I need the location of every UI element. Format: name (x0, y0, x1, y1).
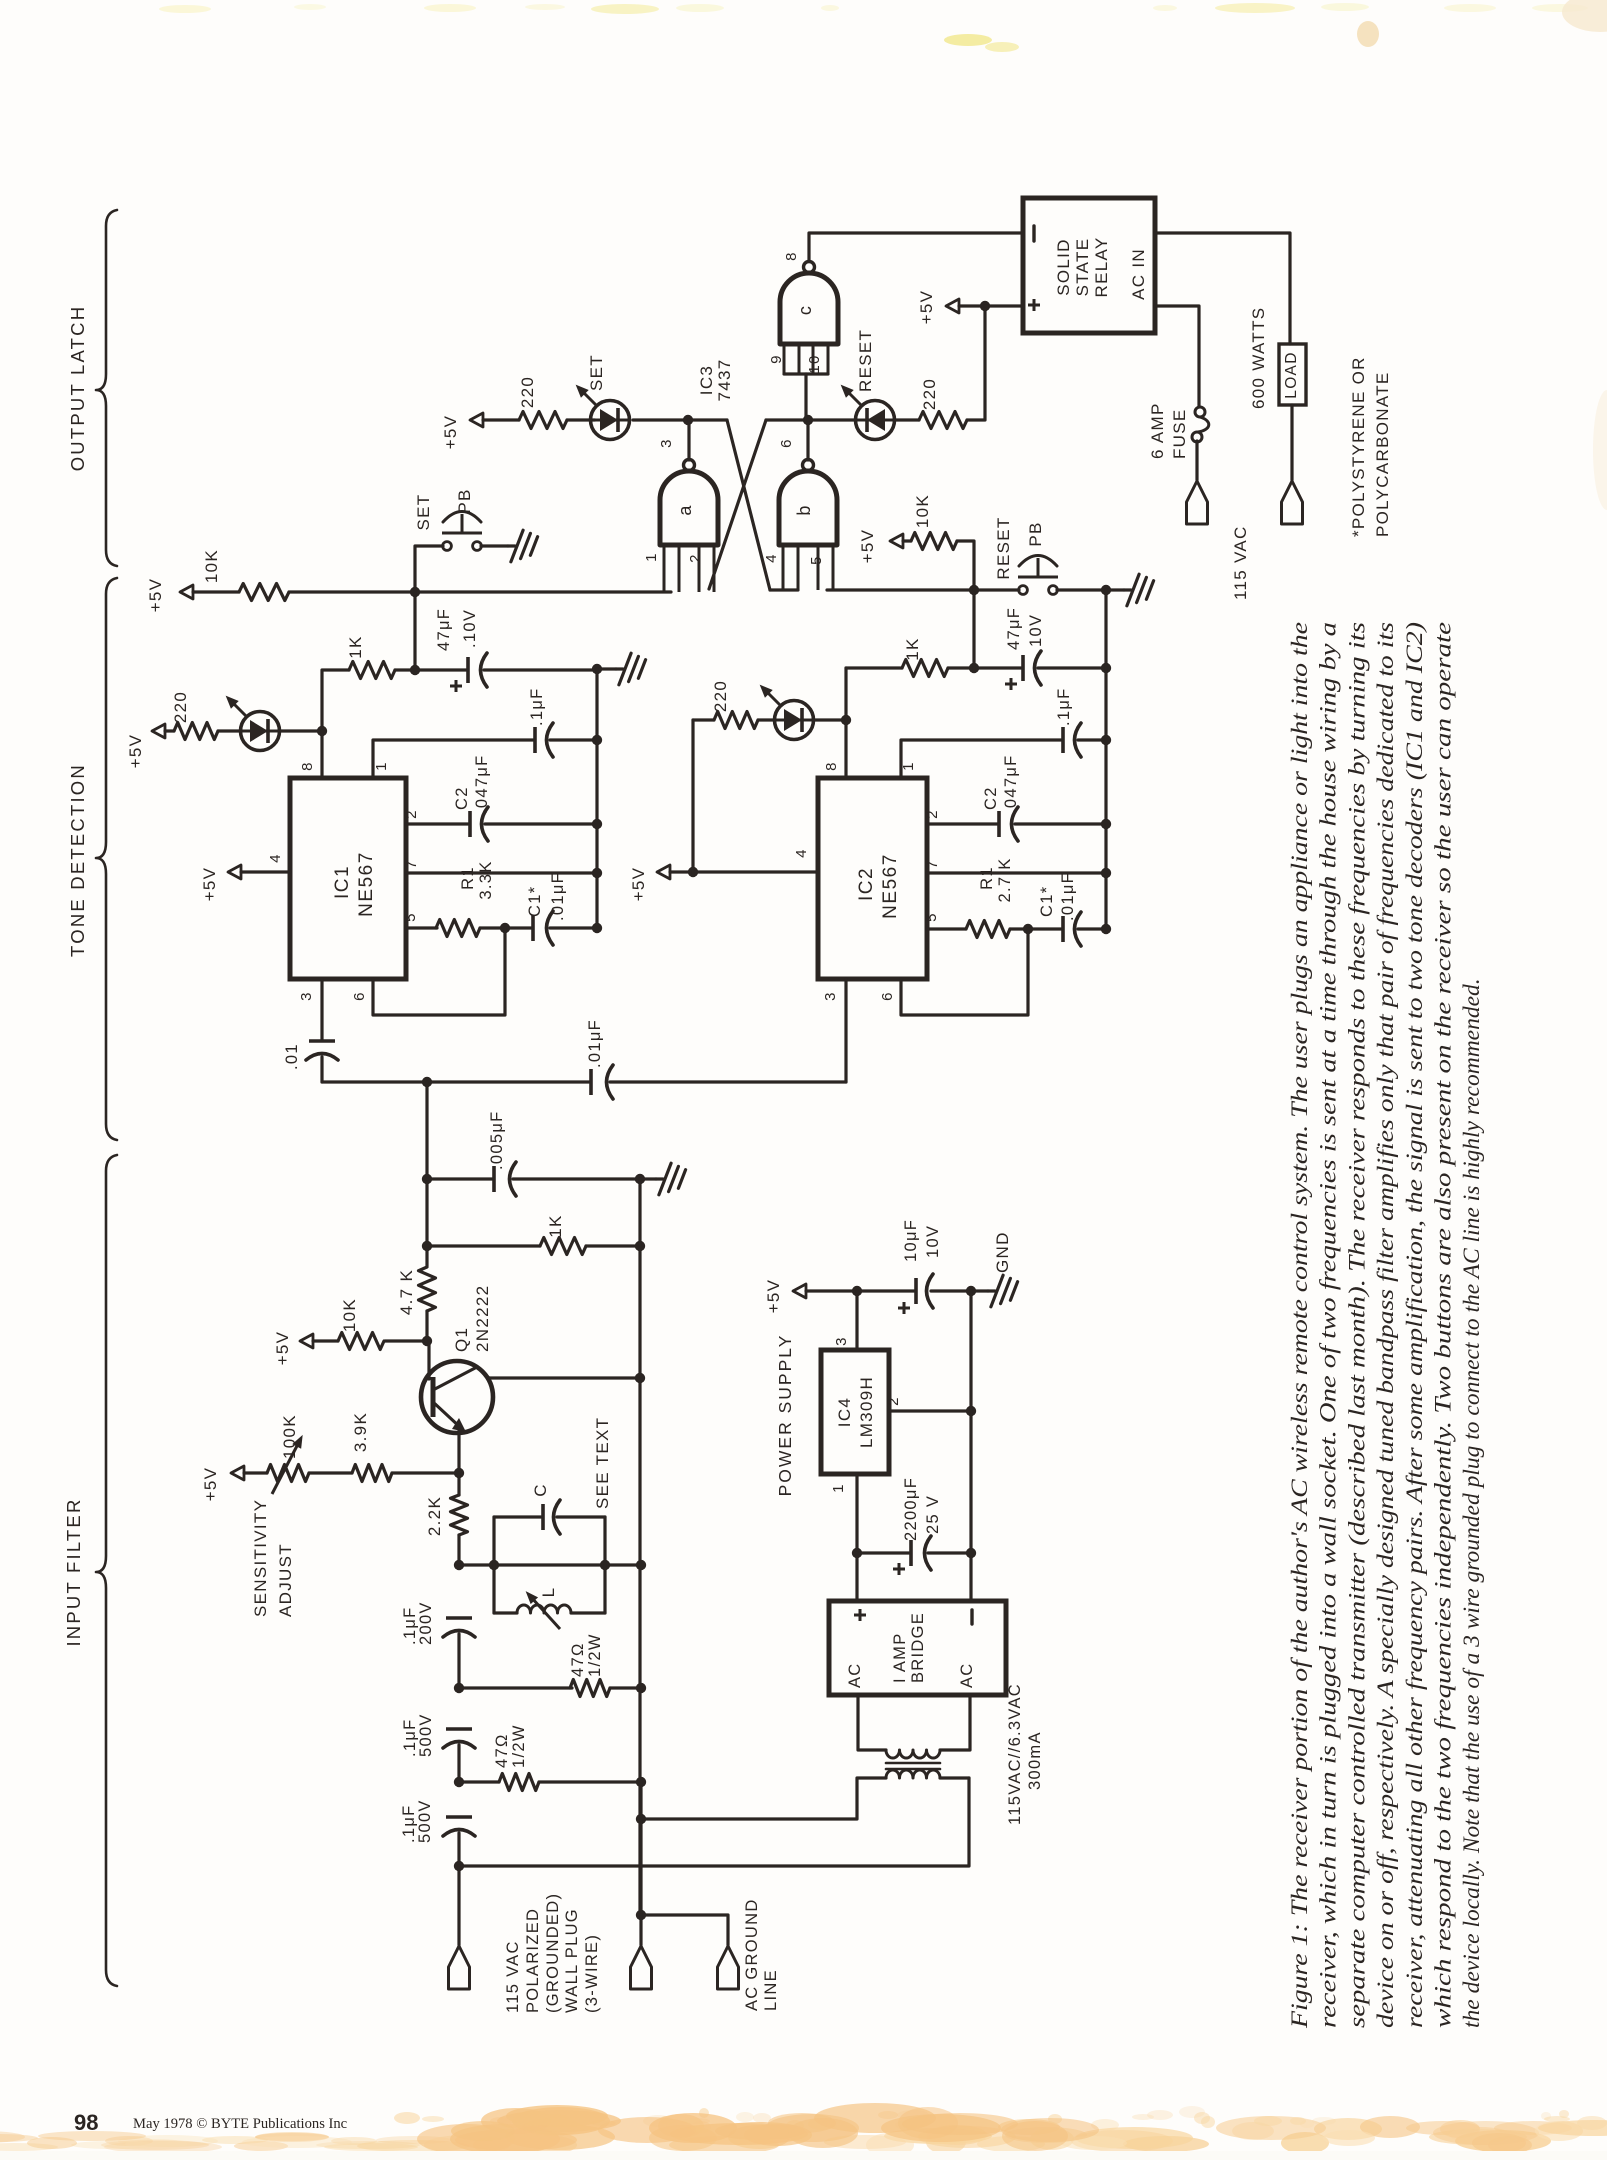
tank top with capacitor C (494, 1515, 541, 1518)
capacitor 2200uF 25V (909, 1540, 913, 1566)
wire pin3 (IC2) (844, 979, 847, 1082)
wire pin4 +5V (IC1) (241, 870, 290, 873)
wire fuse to plug (1195, 441, 1198, 480)
svg-text:1K: 1K (546, 1214, 565, 1237)
svg-text:115VAC//6.3VAC: 115VAC//6.3VAC (1006, 1683, 1024, 1825)
wire bridge + leg (855, 1553, 858, 1601)
wire reset rail from gate b (827, 588, 974, 591)
svg-text:1/2W: 1/2W (586, 1633, 604, 1677)
tank left side (492, 1517, 495, 1613)
label + (bridge) (854, 1614, 866, 1617)
svg-text:.01: .01 (283, 1043, 301, 1070)
wire C2 to bus (IC1) (485, 822, 597, 825)
svg-text:+5V: +5V (200, 867, 219, 902)
svg-text:FUSE: FUSE (1170, 408, 1189, 459)
svg-text:98: 98 (74, 2110, 98, 2135)
svg-text:a: a (675, 504, 695, 515)
brace INPUT FILTER section (96, 1155, 117, 1986)
NAND gate a (IC3) (660, 471, 718, 545)
NAND gate c (IC3) (780, 273, 838, 344)
node 47ohm-2 left (454, 1777, 464, 1787)
svg-text:5: 5 (402, 912, 419, 922)
svg-text:receiver, attenuating all othe: receiver, attenuating all other frequenc… (1402, 622, 1428, 2028)
power +5V arrow (relay) (946, 299, 959, 313)
wire R1 to node (IC1) (480, 926, 505, 929)
wire reset 10K vertical (957, 541, 974, 590)
plug (ac ground) (718, 1946, 739, 1989)
svg-text:4: 4 (793, 848, 810, 858)
node 2200uF left (852, 1548, 862, 1558)
svg-text:which respond to the two frequ: which respond to the two frequencies ind… (1431, 622, 1457, 2028)
svg-text:+5V: +5V (858, 529, 877, 564)
wire relay AC top (1155, 233, 1290, 344)
svg-text:2.7 K: 2.7 K (996, 857, 1014, 902)
wire 47ohm-1 left seg (459, 1686, 572, 1689)
svg-text:6: 6 (879, 991, 896, 1001)
wire diagonal A to pin4 (770, 588, 798, 591)
wire to ground (supply) (971, 1289, 988, 1292)
capacitor C (tank) (541, 1504, 545, 1530)
pushbutton SET PB (443, 542, 452, 551)
wire signal line to IC2 pin3 (610, 1080, 846, 1083)
svg-text:2: 2 (885, 1396, 902, 1406)
svg-text:7: 7 (403, 859, 420, 869)
wire C2 to bus (IC2) (1015, 822, 1106, 825)
node pin7 bus (IC2) (1101, 868, 1111, 878)
svg-text:200V: 200V (417, 1601, 435, 1645)
wire pin3 upper (IC1) (320, 979, 323, 1040)
svg-text:RELAY: RELAY (1092, 237, 1111, 298)
wire primary right (940, 1776, 969, 1779)
node tank left side (489, 1560, 499, 1570)
wire to ground (IC1 bus) (597, 667, 616, 670)
svg-text:2N2222: 2N2222 (473, 1285, 492, 1352)
wire R1 to node (IC2) (1010, 927, 1028, 930)
wire node to 47uF (reset) (974, 666, 1021, 669)
node IC2 pin8/led (841, 715, 851, 725)
node set-rail junction (410, 587, 420, 597)
wire node to 47uF (415, 668, 466, 671)
capacitor .1uF (IC1) (533, 727, 537, 753)
svg-text:10K: 10K (202, 549, 221, 583)
node reset rail (969, 585, 979, 595)
gate b bubble wire (806, 420, 809, 460)
wire 220 branch up (IC2) (691, 720, 694, 872)
wire node to C1 (IC1) (505, 926, 531, 929)
svg-text:IC3: IC3 (697, 365, 716, 395)
wire 2.2K bottom (457, 1535, 460, 1565)
power +5V arrow (filter) (300, 1334, 313, 1348)
svg-text:2: 2 (403, 809, 420, 819)
svg-text:L: L (539, 1587, 558, 1598)
node R1/C1 (IC1) (500, 923, 510, 933)
node 1K junction (422, 1241, 432, 1251)
svg-text:10V: 10V (1027, 614, 1045, 647)
resistor R1 2.7K (IC2) (966, 921, 1010, 938)
node Q1 base (422, 1336, 432, 1346)
wire +5V to pin3 node (806, 1289, 857, 1292)
svg-text:3: 3 (833, 1336, 850, 1346)
svg-text:Figure 1: The receiver portion: Figure 1: The receiver portion of the au… (1287, 622, 1313, 2029)
wire 10K to +5V (filter) (313, 1339, 338, 1342)
node 115vac line (454, 1861, 464, 1871)
wire 2200 left seg (857, 1551, 909, 1554)
resistor 2.2K (451, 1495, 468, 1535)
transformer secondary winding (886, 1750, 940, 1758)
node 47ohm-1 bus (636, 1683, 646, 1693)
wire gate c tie to node (804, 374, 807, 420)
power +5V arrow (IC2 pin4) (657, 865, 670, 879)
svg-text:1K: 1K (903, 637, 922, 660)
tank bottom left seg (494, 1611, 517, 1614)
resistor 220 (reset led) (919, 412, 967, 429)
wire +5V to relay node (959, 304, 985, 307)
LED indicator RESET (856, 419, 895, 422)
bridge rectifier box (829, 1601, 1006, 1695)
svg-text:3: 3 (658, 438, 675, 448)
node pin5 bus (IC2) (1101, 924, 1111, 934)
label + (47uF reset) (1005, 683, 1017, 686)
capacitor C1* .01uF (IC1) (531, 915, 535, 941)
svg-text:IC1: IC1 (332, 865, 353, 899)
wire C1 to bus (IC1) (550, 926, 597, 929)
transistor Q1 2N2222 (421, 1361, 493, 1433)
svg-text:OUTPUT LATCH: OUTPUT LATCH (67, 305, 88, 472)
resistor 1K (filter) (540, 1238, 586, 1255)
capacitor 47uF (set) (466, 657, 470, 683)
wire relay AC bottom (1155, 306, 1199, 407)
wire LED to pin8 node (IC1) (279, 729, 322, 732)
resistor 220 (IC1 led) (174, 723, 218, 740)
ground (set PB) (508, 544, 515, 547)
svg-text:10K: 10K (913, 494, 932, 528)
wire 2200 right seg (928, 1551, 971, 1554)
solid state relay box (1023, 198, 1155, 333)
svg-text:(3-WIRE): (3-WIRE) (583, 1934, 601, 2013)
node pin1 bus (IC1) (592, 735, 602, 745)
wire set line to diagonal (688, 418, 727, 421)
wire reset node down (972, 590, 975, 668)
svg-text:5: 5 (808, 555, 825, 565)
power +5V arrow (IC1 pin4) (228, 865, 241, 879)
svg-text:AC: AC (958, 1662, 976, 1688)
wire 1K right segment (395, 668, 415, 671)
svg-text:1/2W: 1/2W (510, 1724, 528, 1768)
svg-text:2.2K: 2.2K (425, 1496, 444, 1536)
wire rail to PB (reset) (974, 588, 1019, 591)
wire 10K to base node (385, 1339, 427, 1342)
svg-text:.01μF: .01μF (586, 1019, 604, 1068)
svg-text:LM309H: LM309H (857, 1376, 876, 1448)
svg-text:+5V: +5V (126, 734, 145, 769)
wire 220 to LED (set) (567, 418, 595, 421)
wire +5V to pot (244, 1471, 267, 1474)
capacitor .1uF 500V (upper) (446, 1727, 472, 1731)
node supply ground (966, 1286, 976, 1296)
svg-text:1: 1 (373, 761, 390, 771)
svg-text:500V: 500V (416, 1799, 434, 1843)
svg-text:C2: C2 (982, 786, 1000, 810)
svg-text:47Ω: 47Ω (493, 1733, 511, 1768)
svg-text:C: C (531, 1483, 550, 1497)
svg-text:separate computer controlled t: separate computer controlled transmitter… (1344, 622, 1370, 2028)
wire 1K to bus (filter) (586, 1244, 640, 1247)
wire ground bus IC1 (595, 669, 598, 928)
gate c pins 9-10 tie (784, 372, 828, 375)
wire +5V to node (IC2) (670, 870, 693, 873)
node tank right side (600, 1560, 610, 1570)
wire 4.7K to base node (425, 1311, 428, 1341)
svg-text:1K: 1K (346, 635, 365, 658)
svg-text:.005μF: .005μF (488, 1111, 506, 1171)
svg-text:WALL PLUG: WALL PLUG (563, 1908, 581, 2013)
wire ground bus IC2 (1104, 590, 1107, 929)
svg-text:POLYCARBONATE: POLYCARBONATE (1373, 371, 1392, 537)
IC U4 IC4 LM309H box (821, 1350, 889, 1474)
resistor 220 (set led) (519, 412, 567, 429)
capacitor .005uF (492, 1166, 496, 1192)
svg-text:3.3K: 3.3K (477, 860, 495, 899)
power +5V arrow (pot) (231, 1466, 244, 1480)
svg-text:AC GROUND: AC GROUND (743, 1898, 761, 2011)
wire 10K to +5V (reset) (903, 539, 911, 542)
svg-text:Q1: Q1 (452, 1327, 471, 1352)
fuse 6 AMP (1195, 407, 1205, 417)
wire PB to ground (481, 544, 508, 547)
wire 3.9K to emitter node (392, 1471, 459, 1474)
wire 2.2K top (457, 1473, 460, 1495)
power +5V arrow (set led) (470, 413, 483, 427)
svg-text:device on or off, respectively: device on or off, respectively. A specia… (1373, 622, 1399, 2028)
capacitor .1uF (IC2) (1061, 727, 1065, 753)
wire pin3 (IC4) (855, 1291, 858, 1350)
svg-text:ADJUST: ADJUST (276, 1543, 295, 1617)
svg-text:RESET: RESET (856, 329, 875, 392)
svg-text:220: 220 (518, 376, 537, 408)
wire pin1 (IC4) (855, 1474, 858, 1553)
wire 1K to node (IC2) (948, 666, 974, 669)
wire Q1 emitter (457, 1431, 460, 1473)
svg-text:BRIDGE: BRIDGE (909, 1612, 927, 1683)
brace OUTPUT LATCH section (96, 210, 117, 566)
svg-text:SET: SET (587, 354, 606, 391)
svg-text:220: 220 (711, 680, 730, 712)
wire 1K left corner (IC2) (846, 666, 902, 669)
wire 47uF to bus (reset) (1038, 666, 1106, 669)
svg-text:2: 2 (924, 809, 941, 819)
svg-text:.01μF: .01μF (549, 872, 567, 921)
svg-text:c: c (795, 305, 815, 315)
node relay plus (980, 301, 990, 311)
wire reset LED line (808, 418, 856, 421)
node PB ground (reset) (1101, 585, 1111, 595)
label + (relay) (1028, 304, 1040, 307)
plug (wall neutral) (631, 1946, 652, 1989)
wire pin1 jog (IC2) (901, 740, 1061, 778)
svg-text:300mA: 300mA (1026, 1731, 1044, 1790)
node pin2 bus (IC2) (1101, 819, 1111, 829)
wire 47ohm-1 to bus (610, 1686, 641, 1689)
svg-text:.047μF: .047μF (1002, 755, 1020, 815)
wire pin1 jog (IC1) (373, 740, 533, 778)
resistor 47ohm 1/2W (upper) (570, 1680, 610, 1697)
node ac ground tap (636, 1910, 646, 1920)
wire supply right bus (969, 1291, 972, 1601)
svg-text:6 AMP: 6 AMP (1148, 402, 1167, 459)
power +5V arrow (supply out) (793, 1284, 806, 1298)
pushbutton RESET PB (1019, 586, 1028, 595)
wire pin5 (IC2) (927, 927, 966, 930)
node pin2 bus (IC4) (966, 1406, 976, 1416)
svg-text:4: 4 (267, 853, 284, 863)
svg-text:3: 3 (298, 991, 315, 1001)
wire neutral plug lead (639, 1782, 642, 1945)
wire pin8 leg (IC2) (844, 668, 847, 778)
tank right side (603, 1517, 606, 1613)
node pin1 bus (IC2) (1101, 735, 1111, 745)
wire .1uF to bus (IC1) (550, 738, 597, 741)
IC U2 IC2 NE567 box (818, 778, 927, 979)
transformer core (886, 1762, 940, 1765)
wire 115vac hot line (459, 1778, 969, 1866)
wire gate c output (809, 233, 1023, 261)
svg-text:SOLID: SOLID (1054, 238, 1073, 296)
power +5V arrow (IC1 led) (152, 724, 165, 738)
svg-text:RESET: RESET (994, 516, 1013, 579)
wire 47ohm-2 to bus (539, 1780, 641, 1783)
wire main signal line (322, 1080, 589, 1083)
svg-text:R1: R1 (459, 866, 477, 890)
svg-text:TONE DETECTION: TONE DETECTION (67, 763, 88, 957)
svg-text:C2: C2 (453, 786, 471, 810)
svg-text:the device locally. Note that: the device locally. Note that the use of… (1459, 978, 1485, 2028)
svg-text:PB: PB (455, 488, 474, 513)
node tank left feed (454, 1560, 464, 1570)
svg-text:POWER SUPPLY: POWER SUPPLY (775, 1334, 795, 1497)
svg-text:NE567: NE567 (356, 851, 377, 917)
svg-text:+5V: +5V (441, 415, 460, 450)
wire +5V to 220 (IC1) (165, 729, 174, 732)
svg-text:LINE: LINE (762, 1969, 780, 2011)
potentiometer 100K sensitivity (267, 1465, 309, 1482)
label - (bridge) (970, 1610, 973, 1624)
svg-text:1: 1 (830, 1483, 847, 1493)
power +5V arrow (set rail) (180, 585, 193, 599)
inductor arrow (tank) (531, 1597, 560, 1629)
wire pin4 (IC2) (693, 870, 818, 873)
svg-text:PB: PB (1026, 521, 1045, 546)
capacitor C2 .047uF (IC1) (468, 811, 472, 837)
wire bridge ac left leg (858, 1695, 886, 1750)
svg-text:2200μF: 2200μF (902, 1477, 920, 1541)
wire pin6 loop (IC2) (901, 929, 1028, 1015)
plug (load) (1282, 481, 1303, 524)
wire PB to node (reset) (1057, 588, 1106, 591)
plug (115vac hot) (1187, 481, 1208, 524)
wire node to relay + (985, 304, 1023, 307)
NAND gate b (IC3) (779, 471, 837, 545)
svg-text:100K: 100K (280, 1414, 299, 1459)
wire 220 left seg (IC2) (693, 718, 714, 721)
wire pin2 (IC1) (406, 822, 468, 825)
capacitor .1uF 200V (446, 1616, 472, 1620)
svg-text:6: 6 (351, 991, 368, 1001)
node IC1 pin8/led (317, 726, 327, 736)
svg-text:NE567: NE567 (880, 853, 901, 919)
svg-text:6: 6 (778, 438, 795, 448)
label - (relay) (1032, 226, 1035, 241)
wire cross diagonal A (727, 420, 770, 590)
resistor 1K (IC2 pin8) (902, 660, 948, 677)
svg-text:IC4: IC4 (835, 1397, 854, 1427)
svg-text:INPUT FILTER: INPUT FILTER (63, 1497, 84, 1646)
wire pin2 (IC4) (889, 1409, 971, 1412)
node 47uF bus (reset) (1101, 663, 1111, 673)
power +5V arrow (reset 10K) (890, 534, 903, 548)
wire ac ground lead (641, 1915, 728, 1945)
svg-text:SEE TEXT: SEE TEXT (593, 1417, 612, 1509)
LOAD box (1279, 344, 1306, 405)
svg-text:I AMP: I AMP (891, 1632, 909, 1683)
wire LED to pin8 node (IC2) (813, 718, 846, 721)
node pin7 bus (IC1) (592, 868, 602, 878)
ground (supply) (988, 1289, 995, 1292)
svg-text:receiver, which in turn is plu: receiver, which in turn is plugged into … (1316, 622, 1342, 2028)
svg-text:8: 8 (299, 761, 316, 771)
svg-text:8: 8 (783, 251, 800, 261)
node emitter junction (454, 1468, 464, 1478)
node 1K bus (filter) (635, 1241, 645, 1251)
resistor 47ohm 1/2W (lower) (499, 1774, 539, 1791)
svg-text:47Ω: 47Ω (569, 1642, 587, 1677)
node 47ohm-2 bus (636, 1777, 646, 1787)
svg-text:9: 9 (768, 354, 785, 364)
svg-text:1: 1 (643, 552, 660, 562)
node 47ohm-1 left (454, 1683, 464, 1693)
wire cross diagonal B (709, 420, 766, 589)
capacitor C2 .047uF (IC2) (997, 811, 1001, 837)
LED indicator (IC1) (241, 730, 280, 733)
wire pin8 leg (IC1) (320, 731, 323, 778)
node 2200uF right (966, 1548, 976, 1558)
svg-text:+5V: +5V (629, 867, 648, 902)
wire hot plug lead (457, 1866, 460, 1945)
wire node to 10uF (857, 1289, 914, 1292)
svg-text:220: 220 (920, 378, 939, 410)
svg-text:+5V: +5V (146, 578, 165, 613)
node gate a output (683, 415, 693, 425)
wire bridge ac right leg (940, 1695, 970, 1750)
wire 10uF to gnd node (931, 1289, 971, 1292)
wire 47ohm-2 left seg (459, 1780, 499, 1783)
LED indicator SET (591, 419, 630, 422)
svg-text:+5V: +5V (273, 1331, 292, 1366)
capacitor .01 (IC1 pin3) (309, 1039, 335, 1043)
svg-text:25 V: 25 V (924, 1495, 942, 1534)
resistor 1K (IC1 pin8) (349, 662, 395, 679)
svg-text:115 VAC: 115 VAC (504, 1940, 522, 2013)
svg-text:47μF: 47μF (1005, 607, 1023, 650)
pot wiper arrow (272, 1442, 299, 1494)
resistor 10K (set rail) (239, 584, 289, 601)
svg-text:LOAD: LOAD (1283, 351, 1300, 398)
svg-text:8: 8 (823, 761, 840, 771)
node .005 bus (635, 1174, 645, 1184)
svg-text:500V: 500V (417, 1713, 435, 1757)
node pin5 bus (IC1) (592, 923, 602, 933)
svg-text:POLARIZED: POLARIZED (524, 1908, 542, 2013)
resistor 3.9K (352, 1465, 392, 1482)
